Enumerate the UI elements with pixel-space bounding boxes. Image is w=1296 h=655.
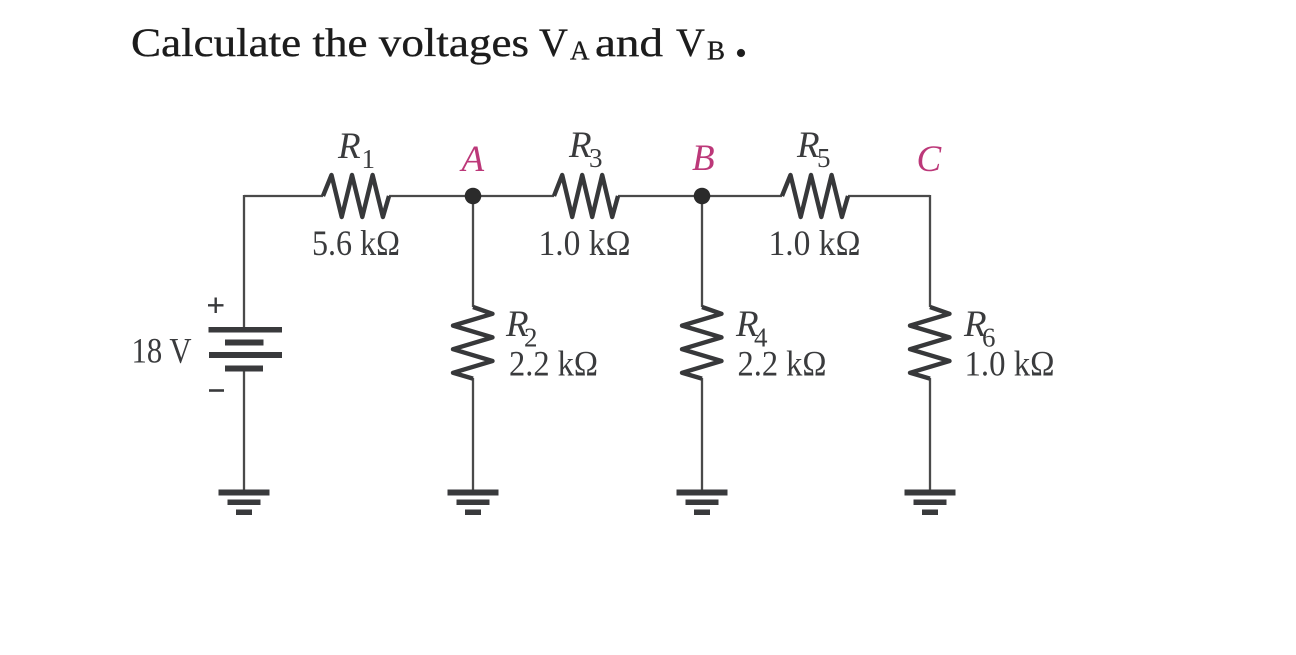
svg-text:V: V — [539, 20, 568, 65]
svg-text:1: 1 — [362, 144, 376, 174]
svg-text:2.2 kΩ: 2.2 kΩ — [509, 344, 598, 384]
svg-text:V: V — [676, 20, 705, 65]
svg-text:2.2 kΩ: 2.2 kΩ — [738, 344, 827, 384]
svg-text:R: R — [337, 126, 361, 167]
svg-text:A: A — [570, 36, 590, 66]
svg-text:C: C — [917, 139, 943, 180]
svg-text:A: A — [459, 139, 485, 180]
svg-text:18 V: 18 V — [132, 331, 192, 371]
svg-text:5: 5 — [817, 143, 831, 173]
svg-text:1.0 kΩ: 1.0 kΩ — [965, 344, 1055, 384]
svg-text:3: 3 — [589, 143, 603, 173]
svg-text:1.0 kΩ: 1.0 kΩ — [539, 223, 631, 263]
svg-text:Calculate the voltages: Calculate the voltages — [131, 20, 529, 65]
svg-text:B: B — [707, 36, 725, 66]
svg-text:and: and — [595, 20, 663, 65]
svg-text:1.0 kΩ: 1.0 kΩ — [769, 223, 861, 263]
svg-text:5.6 kΩ: 5.6 kΩ — [312, 223, 400, 263]
svg-text:B: B — [692, 138, 715, 179]
